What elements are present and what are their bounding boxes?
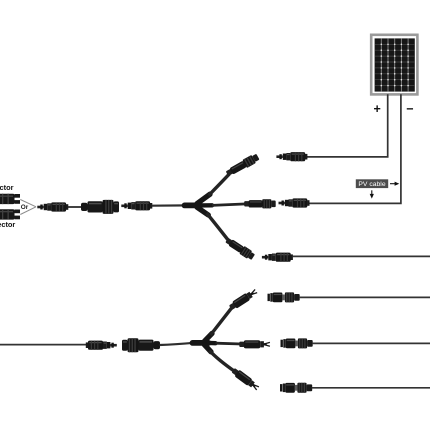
wire: trunk female to Y body [160, 343, 195, 345]
wire: option line top [20, 200, 36, 207]
svg-text:ector: ector [0, 220, 15, 229]
connector: male MC4 input (pin right) [86, 341, 117, 350]
wire: female mate upper to right edge [299, 296, 430, 298]
wire: panel positive lead (down then left to top branch mate) [307, 94, 388, 157]
wire: left edge to male input [0, 344, 87, 346]
connector: bottom Y middle branch male (fork pin) [239, 340, 270, 348]
wire: bottom Y upper branch [211, 307, 233, 335]
connector: male mate lower (pin left) [262, 253, 293, 262]
svg-text:PV cable: PV cable [358, 181, 385, 188]
connector: female mate lower [280, 383, 312, 393]
connector: top Y lower branch female coupler [224, 236, 255, 261]
wire: male A to female B [68, 206, 84, 208]
label: PV cable box [356, 179, 388, 188]
connector: bottom Y upper branch male (fork pin) [228, 288, 258, 312]
Y splitter body (bottom assembly) [193, 333, 216, 351]
connector: female mate upper [268, 292, 300, 302]
wire: top Y lower branch [207, 213, 230, 241]
Y splitter body (top assembly) [185, 194, 213, 215]
svg-text:Or: Or [21, 204, 29, 211]
connector: female MC4 B (front right) [81, 200, 119, 214]
wire: lower mate to right edge [292, 255, 430, 257]
connector: top Y upper branch female coupler [225, 153, 260, 178]
connector: bottom Y lower branch male (fork pin) [231, 367, 260, 392]
wire: top Y middle branch [212, 204, 247, 206]
connector: male MC4 B (pin left, trunk input) [121, 201, 152, 210]
svg-text:+: + [374, 102, 381, 116]
connector: male mate middle (pin left) [279, 198, 310, 207]
wire: top Y upper branch [209, 174, 230, 196]
connector: male mate upper (pin left) [276, 152, 307, 161]
wire: panel negative lead (down then left to middle branch mate) [309, 94, 401, 203]
connector: option coupler bottom [0, 209, 20, 219]
solar panel PV1 frame [371, 35, 417, 95]
wire: female mate middle to right edge [312, 342, 430, 344]
svg-text:−: − [406, 102, 413, 116]
connector: female mate middle [281, 338, 313, 348]
connector: option coupler top [0, 194, 20, 204]
wire: female mate lower to right edge [312, 387, 430, 389]
connector: female MC4 trunk [122, 338, 160, 352]
svg-text:ector: ector [0, 183, 14, 192]
wire: option line bottom [20, 207, 36, 215]
wire: trunk input to Y body [152, 204, 188, 207]
arrow: PV cable to negative wire [390, 182, 399, 186]
solar panel PV1 cell grid [375, 38, 415, 91]
connector: male MC4 A (pin left) [37, 202, 68, 211]
connector: top Y middle branch female coupler [244, 199, 276, 208]
wire: bottom Y middle branch [216, 342, 243, 346]
wire: bottom Y lower branch [210, 351, 236, 373]
arrow: PV cable down to horizontal wire [370, 190, 374, 198]
